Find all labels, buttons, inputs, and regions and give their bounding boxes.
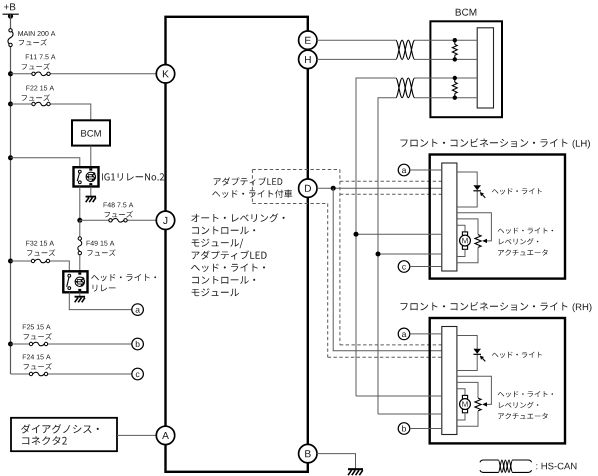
wire bus to IG1 relay contact <box>11 158 80 167</box>
connector bar RH <box>442 327 457 435</box>
wire F32 branch to headlight relay <box>11 260 32 262</box>
wire leveling motor + LH <box>356 233 442 235</box>
twisted pair 2 HS-CAN <box>396 78 415 98</box>
node c at LH light <box>398 261 410 273</box>
label headlight RH <box>492 352 542 358</box>
wire F22 branch to BCM <box>11 103 32 105</box>
LED arrow LH <box>483 195 486 198</box>
junction dot F32 branch <box>8 259 13 264</box>
label headlight LH <box>492 188 542 194</box>
wire left bus vertical <box>10 14 12 28</box>
label F24 15 A fuse <box>23 354 51 359</box>
BCM box right <box>430 21 502 117</box>
label IG1 relay No.2 <box>102 173 164 181</box>
wire F24 branch to c <box>11 373 30 375</box>
op-amp module box (auto leveling control module) <box>166 17 308 472</box>
node c left <box>132 368 144 380</box>
connector bar LH <box>442 163 457 271</box>
wire diagnosis connector to A <box>117 434 157 436</box>
wire IG1 coil to ground <box>90 187 92 197</box>
battery feed tick bar <box>3 13 19 15</box>
label auto leveling control module <box>191 213 284 222</box>
LED arrow RH <box>483 358 486 361</box>
LED headlight diode LH <box>473 185 481 190</box>
label front combination light (LH) title <box>400 138 567 147</box>
label HS-CAN <box>536 463 576 470</box>
dashed adaptive loop at RH light <box>340 344 446 346</box>
wire CAN pair 2 upper <box>356 78 396 396</box>
node J <box>156 211 174 229</box>
wire IG1 contact down to F48 junction <box>79 187 81 221</box>
label front combination light (RH) title <box>400 302 567 311</box>
node K <box>156 65 174 83</box>
wire motor top LH <box>457 225 465 232</box>
wire F49 vertical <box>79 220 81 237</box>
wire LED headlight loop LH <box>457 172 477 185</box>
wire motor top RH <box>457 389 465 396</box>
wire leveling motor - LH <box>378 253 442 255</box>
label F48 7.5 A fuse <box>104 202 134 207</box>
resistor BCM terminator 1 <box>454 40 456 44</box>
label headlight relay <box>91 274 156 281</box>
label adaptive LED headlight variant <box>214 177 283 185</box>
motor leveling actuator LH <box>462 232 467 235</box>
fusible link MAIN 200A symbol <box>8 30 13 45</box>
relay headlight box with contact and coil <box>63 271 87 292</box>
fuse F48 7.5A <box>112 219 124 223</box>
junction dot D branch <box>331 186 336 191</box>
wire potentiometer wiper LH <box>457 213 492 241</box>
node D <box>299 179 317 197</box>
wire motor bottom LH <box>457 249 465 256</box>
wire potentiometer track bottom RH <box>457 411 478 426</box>
label headlight leveling actuator RH <box>498 391 553 397</box>
node E <box>299 31 317 49</box>
node B <box>299 444 317 462</box>
label F32 15 A fuse <box>26 241 54 246</box>
ground B <box>348 468 363 470</box>
label F22 15 A fuse <box>26 86 54 91</box>
resistor potentiometer track RH <box>475 398 481 411</box>
wire b to connector RH <box>410 428 442 430</box>
wire BCM to IG1 relay coil <box>90 146 92 168</box>
wire CAN pair 2 lower <box>378 98 396 414</box>
wire potentiometer track bottom LH <box>457 247 478 262</box>
wire potentiometer track top LH <box>457 219 478 235</box>
wire leveling motor - RH <box>378 413 442 415</box>
front combination light (RH) box <box>430 318 565 443</box>
node A <box>156 426 174 444</box>
label F25 15 A fuse <box>23 324 51 329</box>
wire F25 branch to b <box>11 343 30 345</box>
wire LED headlight loop RH <box>457 336 477 349</box>
relay IG1 No.2 box with contact and coil <box>74 167 99 186</box>
label headlight leveling actuator LH <box>498 228 553 234</box>
dashed adaptive variant enclosure around label <box>251 170 253 204</box>
dashed adaptive wire right vertical <box>339 170 341 345</box>
motor leveling actuator RH <box>462 395 467 398</box>
BCM connector bar <box>477 28 493 108</box>
wire B to ground <box>317 454 356 469</box>
label MAIN 200 A fuse <box>18 31 55 36</box>
wire F11 branch to K <box>11 73 32 75</box>
wire a to connector LH <box>410 169 442 171</box>
node b left <box>132 338 144 350</box>
twisted pair E/H HS-CAN <box>396 40 415 59</box>
junction dot F22 branch <box>8 102 13 107</box>
fuse F32 15A <box>35 259 47 263</box>
fuse F24 15A <box>33 372 45 376</box>
node a at LH light <box>398 164 410 176</box>
wire F48 branch to J <box>80 219 109 221</box>
label F49 15 A fuse <box>87 241 115 246</box>
node H <box>299 50 317 68</box>
wire D branch down to RH light <box>333 188 442 351</box>
wire a to connector RH <box>410 333 442 335</box>
fuse F22 15A <box>35 102 47 106</box>
wire c to connector LH <box>410 266 442 268</box>
junction dot F11 branch <box>8 71 13 76</box>
ground headlight relay <box>75 296 86 298</box>
node b at RH light <box>398 423 410 435</box>
fuse F49 15A <box>78 240 82 251</box>
node +B battery feed label <box>4 3 16 10</box>
wire leveling motor + RH <box>356 395 442 397</box>
wire headlight relay output to a <box>69 292 132 309</box>
front combination light (LH) box <box>430 155 565 279</box>
fuse F11 7.5A <box>35 72 47 76</box>
wire headlight relay coil to ground <box>79 292 81 296</box>
junction dot F25 branch <box>8 342 13 347</box>
wire motor bottom RH <box>457 413 465 420</box>
resistor BCM terminator 2 <box>454 78 456 82</box>
dashed adaptive wire left vertical <box>327 204 329 358</box>
dashed adaptive loop at LH light <box>340 180 446 182</box>
resistor potentiometer track LH <box>475 235 481 248</box>
LED headlight diode RH <box>473 349 481 354</box>
fuse F25 15A <box>33 342 45 346</box>
junction dot at +B <box>8 14 13 19</box>
ground IG1 relay <box>86 196 97 198</box>
junction dot IG1 branch <box>8 155 13 160</box>
wire D to junction <box>317 187 442 189</box>
node a left <box>132 304 144 316</box>
legend HS-CAN twisted pair symbol <box>480 460 498 462</box>
wire H to BCM (CAN low) <box>317 58 396 60</box>
junction dot F48/F49 <box>77 218 82 223</box>
wire E to BCM (CAN high) <box>317 39 396 41</box>
label F11 7.5 A fuse <box>26 54 56 59</box>
diagnosis connector 2 box <box>11 418 117 451</box>
wire potentiometer track top RH <box>457 382 478 398</box>
BCM box left <box>72 120 110 145</box>
wire potentiometer wiper RH <box>457 376 492 404</box>
node a at RH light <box>398 328 410 340</box>
